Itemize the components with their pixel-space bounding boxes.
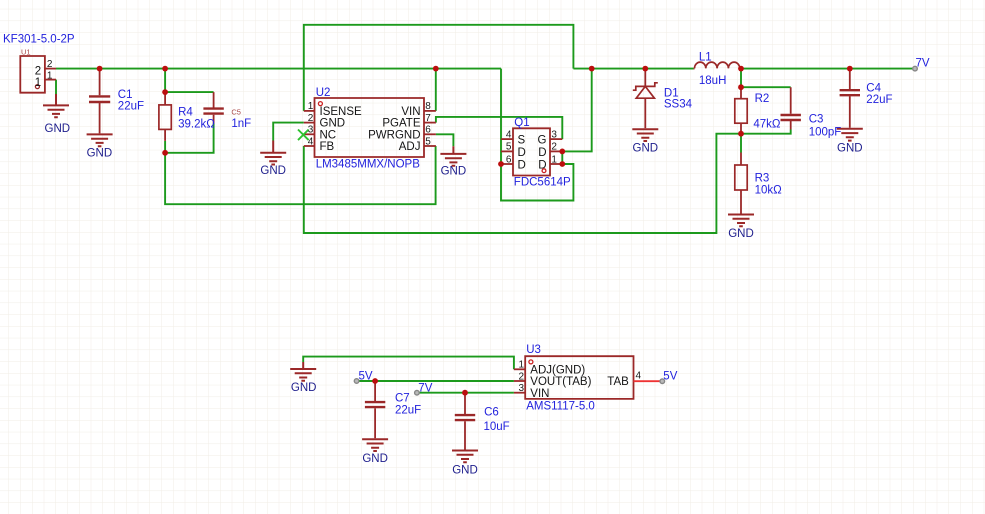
- svg-text:18uH: 18uH: [699, 75, 727, 87]
- transistor Q1 FDC5614P body: [513, 128, 550, 175]
- ground under C1: [87, 134, 113, 146]
- svg-text:VIN: VIN: [401, 106, 420, 118]
- svg-text:GND: GND: [260, 165, 286, 177]
- svg-text:10kΩ: 10kΩ: [755, 185, 783, 197]
- wire Q1 drain to rail riser: [562, 69, 591, 152]
- Q1 pin 1 stub: [550, 163, 562, 165]
- IC U3 pin1 indicator circle: [529, 360, 533, 364]
- ground under U2 pin2 (GND): [260, 141, 286, 165]
- svg-text:Q1: Q1: [514, 117, 529, 129]
- svg-text:PWRGND: PWRGND: [368, 129, 420, 141]
- svg-text:GND: GND: [728, 228, 754, 240]
- IC U3 AMS1117 body: [525, 356, 633, 399]
- Q1 pin 4 stub: [501, 138, 513, 140]
- svg-text:22uF: 22uF: [118, 101, 144, 113]
- svg-text:6: 6: [425, 125, 431, 136]
- ground under U1 pin1: [43, 94, 69, 117]
- capacitor C3 leads: [790, 87, 792, 129]
- Q1 pin 3 stub: [550, 138, 562, 140]
- IC U3 pin 2 stub: [514, 380, 525, 382]
- Q1 pin1 indicator circle: [542, 169, 546, 173]
- resistor R4 body: [159, 105, 171, 129]
- wire PGATE to gate: [436, 117, 562, 139]
- IC U2 pin1 indicator circle: [318, 102, 322, 106]
- svg-text:4: 4: [636, 371, 642, 382]
- wire L1 out to C3: [740, 69, 742, 88]
- svg-text:1: 1: [35, 77, 41, 89]
- svg-text:22uF: 22uF: [395, 404, 421, 416]
- svg-text:G: G: [538, 135, 547, 147]
- diode D1 bottom lead: [644, 98, 646, 128]
- wire C3 bottom branch: [741, 130, 791, 134]
- junction Q1 drain riser rail: [589, 66, 595, 72]
- capacitor C6 plates: [455, 415, 475, 420]
- svg-text:U1: U1: [21, 48, 31, 57]
- svg-text:1: 1: [47, 70, 53, 81]
- inductor L1 left lead: [693, 68, 696, 70]
- svg-text:5: 5: [425, 136, 431, 147]
- junction VIN riser: [433, 66, 439, 72]
- ground under U2 pin6 (PWRGND): [440, 146, 466, 165]
- capacitor C3 plates: [781, 115, 801, 120]
- svg-text:C6: C6: [484, 406, 499, 418]
- wire VIN riser: [435, 69, 437, 111]
- junction C4 rail: [847, 66, 853, 72]
- svg-text:39.2kΩ: 39.2kΩ: [178, 118, 215, 130]
- svg-text:2: 2: [551, 142, 557, 153]
- svg-text:100pF: 100pF: [809, 126, 842, 138]
- wire R2-R3 link: [740, 134, 742, 153]
- junction R4 lower node: [162, 150, 168, 156]
- svg-text:3: 3: [551, 129, 557, 140]
- svg-text:C4: C4: [866, 83, 881, 95]
- junction C7 top: [372, 378, 378, 384]
- svg-text:GND: GND: [441, 165, 467, 177]
- svg-text:10uF: 10uF: [484, 421, 510, 433]
- ground under C6: [452, 451, 478, 463]
- svg-text:C1: C1: [118, 89, 133, 101]
- Q1 pin 6 stub: [501, 163, 513, 165]
- svg-text:D: D: [518, 159, 526, 171]
- junction L1 output: [738, 66, 744, 72]
- svg-text:C5: C5: [231, 108, 241, 117]
- IC U3 pin 3 stub: [514, 392, 525, 394]
- capacitor C1 plates: [89, 96, 110, 102]
- svg-text:VIN: VIN: [530, 388, 549, 400]
- svg-text:D: D: [538, 147, 546, 159]
- connector U1 pin 1 stub: [45, 79, 56, 81]
- svg-text:GND: GND: [633, 143, 659, 155]
- IC U2 pin 5 stub: [424, 145, 436, 147]
- svg-text:3: 3: [518, 383, 524, 394]
- svg-text:ADJ(GND): ADJ(GND): [530, 364, 585, 376]
- ground at U3 pin1 net: [290, 362, 316, 381]
- wire ADJ to divider: [165, 146, 436, 204]
- ground under C4: [837, 129, 863, 141]
- svg-text:22uF: 22uF: [866, 94, 892, 106]
- capacitor C7 leads: [374, 381, 376, 438]
- wire R4 to C5 top: [165, 91, 214, 93]
- svg-text:R3: R3: [755, 172, 770, 184]
- junction D1 rail: [642, 66, 648, 72]
- wire Q1 pin2-pin1 link: [561, 151, 563, 164]
- svg-text:S: S: [518, 135, 526, 147]
- wire U3 pin1 to ground: [303, 357, 514, 370]
- capacitor C1 leads: [99, 69, 101, 134]
- wire top bypass ISENSE: [304, 25, 574, 111]
- svg-text:1nF: 1nF: [231, 118, 251, 130]
- svg-text:7V: 7V: [418, 383, 432, 395]
- svg-text:L1: L1: [699, 52, 712, 64]
- IC U2 pin 3 stub: [304, 133, 315, 135]
- svg-text:1: 1: [518, 360, 524, 371]
- svg-text:FB: FB: [320, 141, 335, 153]
- svg-text:PGATE: PGATE: [382, 118, 420, 130]
- Q1 pin 2 stub: [550, 150, 562, 152]
- svg-text:5: 5: [506, 142, 512, 153]
- svg-text:SS34: SS34: [664, 99, 693, 111]
- svg-text:U3: U3: [526, 344, 541, 356]
- svg-text:ISENSE: ISENSE: [320, 106, 363, 118]
- diode D1 triangle: [636, 86, 654, 98]
- wire U1 pin1 to ground: [55, 80, 57, 94]
- svg-text:2: 2: [308, 113, 314, 124]
- svg-text:C3: C3: [809, 114, 824, 126]
- connector U1 pin 2 stub: [45, 68, 56, 70]
- wire U3 VIN 7V: [417, 392, 514, 394]
- capacitor C6 leads: [464, 393, 466, 450]
- svg-text:3: 3: [308, 125, 314, 136]
- IC U3 pin 1 stub: [514, 368, 525, 370]
- net endpoint 7V top rail: [913, 66, 918, 71]
- connector U1 pin1 circle: [35, 85, 39, 89]
- svg-text:NC: NC: [320, 129, 337, 141]
- junction Q1 pin2: [559, 149, 565, 155]
- diode D1 top lead: [644, 69, 646, 87]
- svg-text:TAB: TAB: [607, 376, 629, 388]
- svg-text:2: 2: [47, 59, 53, 70]
- svg-text:C7: C7: [395, 393, 410, 405]
- inductor L1 humps: [695, 62, 740, 68]
- svg-text:7V: 7V: [916, 58, 930, 70]
- svg-text:4: 4: [506, 129, 512, 140]
- IC U2 pin 2 stub: [304, 122, 315, 124]
- junction R2 top: [738, 84, 744, 90]
- IC U2 LM3485 body: [315, 98, 425, 157]
- IC U2 pin 4 stub: [304, 145, 315, 147]
- svg-text:6: 6: [506, 154, 512, 165]
- svg-text:1: 1: [551, 154, 557, 165]
- wire C5 bottom to R4 bottom: [165, 124, 214, 153]
- wire main input rail: [56, 68, 501, 70]
- diode D1 schottky cathode bar: [633, 83, 658, 90]
- svg-text:VOUT(TAB): VOUT(TAB): [530, 376, 591, 388]
- junction R4 upper node: [162, 89, 168, 95]
- svg-text:R4: R4: [178, 107, 193, 119]
- svg-text:8: 8: [425, 101, 431, 112]
- svg-text:GND: GND: [45, 123, 71, 135]
- junction Q1 pin6: [498, 161, 504, 167]
- svg-text:1: 1: [308, 101, 314, 112]
- net endpoint 7V at U3 VIN: [415, 390, 420, 395]
- Q1 pin 5 stub: [501, 150, 513, 152]
- wire R4 bottom lead: [164, 141, 166, 153]
- wire U2 GND pin: [273, 123, 304, 141]
- svg-text:5V: 5V: [359, 370, 373, 382]
- net endpoint 5V at U3 VOUT: [354, 379, 359, 384]
- resistor R3 leads: [740, 153, 742, 214]
- resistor R4 leads: [164, 92, 166, 141]
- wire R4 top riser: [164, 69, 166, 93]
- svg-text:2: 2: [35, 65, 41, 77]
- IC U2 pin 1 stub: [304, 110, 315, 112]
- wire C3 top branch: [741, 86, 791, 88]
- svg-text:KF301-5.0-2P: KF301-5.0-2P: [3, 34, 75, 46]
- net endpoint 5V at U3 TAB: [660, 379, 665, 384]
- junction C6 top: [462, 390, 468, 396]
- wire U3 VOUT 5V: [357, 380, 514, 382]
- junction R4 top rail: [162, 66, 168, 72]
- svg-text:GND: GND: [87, 148, 113, 160]
- IC U2 pin 7 stub: [424, 122, 436, 124]
- capacitor C5 leads: [213, 92, 215, 123]
- svg-text:GND: GND: [452, 464, 478, 476]
- resistor R2 body: [735, 99, 747, 124]
- ground under C7: [362, 439, 388, 451]
- capacitor C4 leads: [849, 69, 851, 128]
- wire FB feedback: [304, 134, 741, 233]
- capacitor C4 plates: [840, 90, 860, 95]
- wire output rail left segment: [573, 68, 693, 70]
- wire PWRGND to ground: [436, 134, 454, 146]
- wire Q1 drain loop: [501, 164, 573, 201]
- svg-text:5V: 5V: [663, 371, 677, 383]
- wire Q1 source drop: [500, 69, 502, 164]
- capacitor C5 plates: [203, 109, 223, 114]
- no-connect X on U2 pin3: [298, 130, 309, 141]
- svg-text:LM3485MMX/NOPB: LM3485MMX/NOPB: [316, 159, 421, 171]
- capacitor C7 plates: [365, 402, 385, 407]
- svg-text:GND: GND: [837, 142, 863, 154]
- svg-text:GND: GND: [291, 382, 317, 394]
- junction Q1 pin1: [559, 161, 565, 167]
- svg-text:ADJ: ADJ: [399, 141, 421, 153]
- svg-text:AMS1117-5.0: AMS1117-5.0: [526, 401, 595, 413]
- svg-text:2: 2: [518, 371, 524, 382]
- svg-text:U2: U2: [316, 87, 331, 99]
- ground under D1: [632, 129, 658, 141]
- junction C1 top: [97, 66, 103, 72]
- connector U1 KF301-5.0-2P body: [20, 56, 45, 93]
- IC U3 pin 4 TAB stub (red wire): [634, 380, 663, 382]
- junction R2 bottom: [738, 131, 744, 137]
- ground under R3: [728, 215, 754, 227]
- svg-text:R2: R2: [755, 93, 770, 105]
- svg-text:GND: GND: [320, 118, 346, 130]
- wire output rail right segment: [740, 68, 916, 70]
- IC U2 pin 8 stub: [424, 110, 436, 112]
- svg-text:4: 4: [308, 136, 314, 147]
- resistor R3 body: [735, 165, 747, 190]
- svg-text:7: 7: [425, 113, 431, 124]
- svg-text:47kΩ: 47kΩ: [753, 118, 781, 130]
- IC U2 pin 6 stub: [424, 133, 436, 135]
- svg-text:GND: GND: [362, 453, 388, 465]
- resistor R2 leads: [740, 87, 742, 134]
- svg-text:D: D: [518, 147, 526, 159]
- svg-text:FDC5614P: FDC5614P: [514, 176, 571, 188]
- svg-text:D: D: [538, 159, 546, 171]
